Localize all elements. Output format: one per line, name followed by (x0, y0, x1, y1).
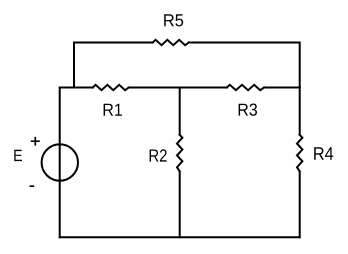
label R5 (164, 14, 183, 26)
wire left rail upper (59, 88, 61, 145)
resistor R3 (227, 85, 264, 90)
label R2 (150, 149, 167, 161)
label R1 (104, 104, 122, 116)
resistor R5 (153, 40, 189, 45)
wire bottom rail (60, 236, 300, 238)
label E (14, 150, 22, 161)
minus sign (30, 185, 35, 187)
wire top R5 branch right segment (189, 43, 300, 88)
wire middle segment (R1 to R3) (129, 87, 227, 89)
wire middle branch lower (179, 172, 181, 238)
wire middle right segment (R3 to right rail) (264, 87, 300, 89)
wire middle branch upper (179, 88, 181, 135)
wire through source (59, 144, 61, 180)
wire top R5 branch left segment (74, 43, 153, 88)
resistor R4 (297, 135, 302, 172)
resistor R2 (177, 135, 182, 172)
wire middle left segment (node A to R1) (60, 87, 93, 89)
voltage source E (42, 144, 78, 180)
wire right rail upper (299, 88, 301, 135)
resistor R1 (93, 85, 129, 90)
label R4 (314, 147, 333, 159)
wire right rail lower (299, 172, 301, 238)
plus sign (31, 137, 40, 146)
wire left rail lower (59, 181, 61, 238)
label R3 (239, 104, 257, 116)
